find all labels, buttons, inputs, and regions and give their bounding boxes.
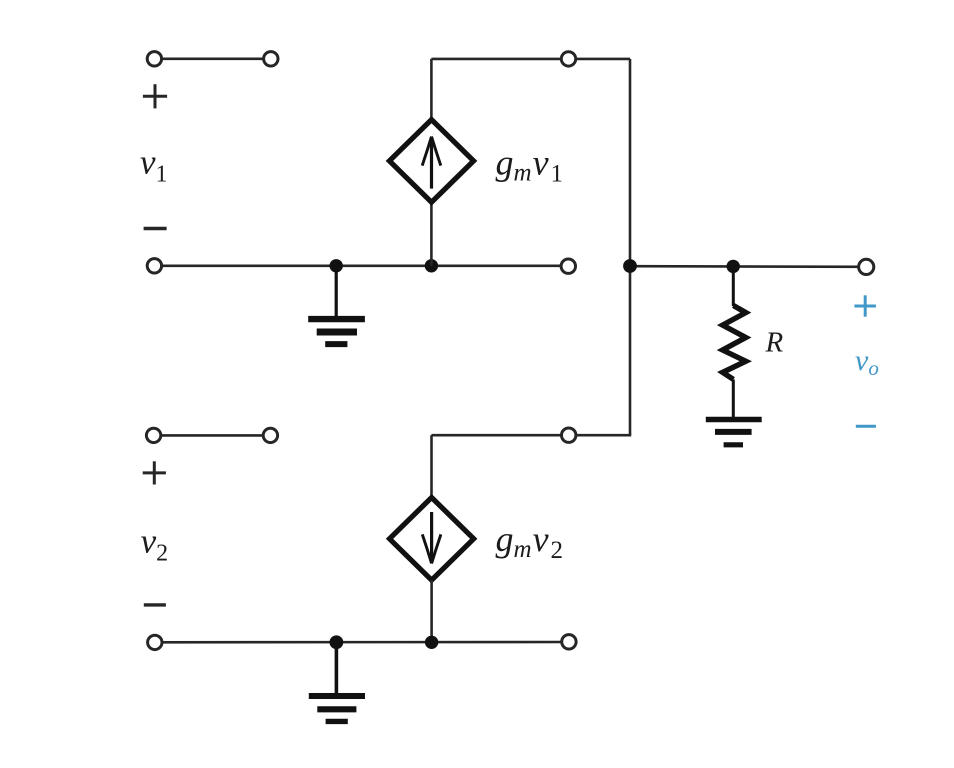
terminal circle vo plus <box>859 259 874 274</box>
wire output row <box>630 265 866 268</box>
arrow down inside diamond2 <box>422 512 441 563</box>
minus sign v1 <box>144 227 167 230</box>
dependent source diamond gm v2 <box>390 498 474 581</box>
wire top-left terminal pair v1 <box>154 57 271 60</box>
terminal circle v1 inner <box>264 52 278 66</box>
wire lower terminal pair v2 <box>154 434 271 437</box>
terminal circle upper bottom right <box>561 259 575 273</box>
wire upper top row to bus <box>431 58 630 61</box>
terminal circle lower bottom right <box>562 635 576 649</box>
terminal circle v2 minus <box>148 635 162 649</box>
wire diamond2 bottom stem <box>430 580 433 642</box>
plus sign v2 <box>143 461 166 484</box>
cyan plus sign vo <box>854 295 876 316</box>
cyan minus sign vo <box>856 425 876 428</box>
terminal circle v1 minus <box>147 259 161 273</box>
junction dot resistor node <box>727 260 740 273</box>
ground G2 <box>309 642 365 721</box>
terminal circle v2 inner <box>263 428 277 442</box>
dependent source diamond gm v1 <box>389 120 473 203</box>
wire diamond1 top stem <box>430 59 433 119</box>
minus sign v2 <box>144 603 166 606</box>
wire lower bottom row <box>155 641 569 644</box>
terminal circle lower top row <box>562 428 576 442</box>
wire vertical bus <box>629 59 632 435</box>
junction dot bus output node <box>623 259 637 273</box>
junction dot diamond2 bottom node <box>425 636 438 649</box>
junction dot upper ground node <box>330 259 343 272</box>
resistor R <box>723 266 746 419</box>
ground G3 below resistor <box>706 420 762 445</box>
wire lower top row to bus <box>430 435 433 496</box>
wire diamond1 bottom stem <box>430 202 433 266</box>
terminal circle v2 plus <box>146 428 160 442</box>
plus sign v1 <box>143 84 167 108</box>
svg-text:R: R <box>765 327 784 359</box>
wire upper bottom row <box>154 264 568 267</box>
junction dot diamond1 bottom node <box>425 259 438 272</box>
terminal circle upper top row <box>561 52 575 66</box>
junction dot lower ground node <box>330 635 344 649</box>
terminal circle v1 plus <box>147 52 161 66</box>
ground G1 <box>308 266 365 344</box>
arrow up inside diamond1 <box>422 137 441 189</box>
